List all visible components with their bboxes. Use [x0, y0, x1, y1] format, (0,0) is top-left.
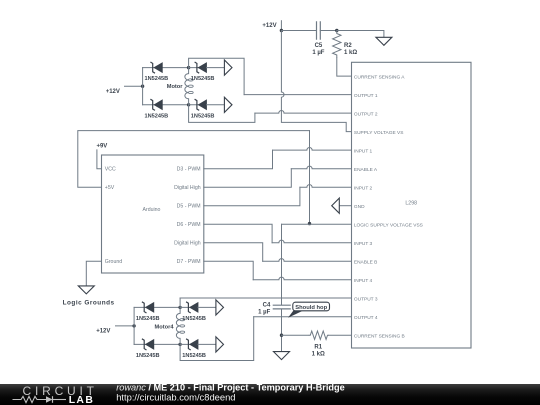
wire to OUTPUT 4 — [254, 316, 352, 318]
wire bridge1 left vertical — [142, 68, 144, 105]
inductor Motor4 — [176, 307, 180, 344]
wire to ENABLE B (hop over C4 net) — [263, 259, 352, 262]
inductor Motor — [185, 68, 189, 105]
svg-text:http://circuitlab.com/c8deend: http://circuitlab.com/c8deend — [116, 391, 235, 402]
wire to INPUT 2 (hop over +5V drop) — [300, 185, 352, 188]
svg-text:OUTPUT 1: OUTPUT 1 — [354, 93, 378, 99]
wire to INPUT 3 (hop over C4 net) — [272, 240, 351, 243]
svg-text:Ground: Ground — [105, 259, 122, 265]
svg-text:1N5245B: 1N5245B — [145, 76, 169, 82]
wire C4 net upper vertical — [281, 224, 283, 305]
wire +12V stub — [280, 21, 282, 31]
wire Ground pin to logic ground — [86, 261, 101, 286]
svg-text:1 kΩ: 1 kΩ — [344, 50, 357, 56]
junction bridge1 left — [141, 85, 144, 88]
svg-text:D5 - PWM: D5 - PWM — [177, 204, 201, 210]
wire bridge1 top row — [143, 67, 189, 69]
svg-text:1N5245B: 1N5245B — [191, 76, 215, 82]
zener diode D4 1N5245B — [195, 99, 207, 110]
zener diode D3 1N5245B — [195, 62, 207, 73]
svg-text:1 kΩ: 1 kΩ — [312, 352, 325, 358]
svg-text:LAB: LAB — [69, 395, 95, 405]
wire +5V rail — [78, 131, 310, 188]
zener diode D5 1N5245B — [142, 302, 154, 313]
svg-text:1N5245B: 1N5245B — [145, 113, 169, 119]
wire bridge2 bottom row — [134, 343, 180, 345]
wire to ENABLE A (hop over +5V drop) — [291, 166, 351, 169]
svg-text:+9V: +9V — [96, 144, 107, 150]
wire bridge1 top border — [189, 58, 245, 94]
zener diode D8 1N5245B — [186, 339, 198, 350]
wire motor4 to D7z — [180, 306, 196, 308]
ground (bridge2 bottom right) — [216, 337, 224, 352]
wire D4z to ground flag — [207, 104, 225, 106]
logo CIRCUIT LAB — [13, 384, 98, 405]
wire +12V to bridge 2 — [116, 325, 135, 327]
zener diode D2 1N5245B — [150, 99, 162, 110]
svg-text:Arduino: Arduino — [143, 207, 161, 213]
wire R1 to CURRENT SENSING B — [329, 334, 352, 336]
wire D5-PWM riser — [204, 187, 300, 206]
junction motor4 bottom — [178, 343, 181, 346]
wire bridge2 top border riser — [179, 298, 181, 307]
wire bridge2 bottom border — [180, 317, 254, 361]
IC U1 L298 block — [352, 62, 472, 348]
svg-text:CURRENT SENSING A: CURRENT SENSING A — [354, 74, 405, 80]
svg-text:LOGIC SUPPLY VOLTAGE VSS: LOGIC SUPPLY VOLTAGE VSS — [354, 222, 423, 228]
wire node to R1 — [282, 334, 309, 336]
zener diode D6 1N5245B — [142, 339, 154, 350]
junction +12V/C5 — [280, 29, 283, 32]
svg-text:C5: C5 — [315, 43, 323, 49]
svg-text:Motor4: Motor4 — [155, 324, 175, 330]
junction VSS — [308, 222, 311, 225]
svg-text:D3 - PWM: D3 - PWM — [177, 167, 201, 173]
capacitor C5 — [317, 21, 321, 40]
IC U2 Arduino block — [102, 155, 204, 273]
svg-text:INPUT 3: INPUT 3 — [354, 241, 373, 247]
wire motor4 to D8z — [180, 343, 196, 345]
wire +12V to bridge 1 — [125, 85, 143, 87]
svg-text:1N5245B: 1N5245B — [136, 316, 160, 322]
wire motor to D3z — [189, 67, 205, 69]
ground (logic) — [78, 286, 94, 294]
wire +12V to SUPPLY VOLTAGE VS (hop over OUTPUT 1 wire) — [281, 31, 351, 132]
capacitor C4 — [273, 305, 291, 309]
wire D8z to ground flag — [198, 343, 216, 345]
svg-text:+12V: +12V — [262, 23, 276, 29]
svg-text:INPUT 4: INPUT 4 — [354, 278, 373, 284]
wire D3z to ground flag — [207, 67, 225, 69]
wire to OUTPUT 2 (hop over +12V) — [255, 110, 352, 113]
svg-text:VCC: VCC — [105, 167, 116, 173]
wire D6-PWM dropper — [204, 224, 272, 243]
svg-text:1 µF: 1 µF — [312, 50, 324, 56]
svg-text:D6 - PWM: D6 - PWM — [177, 222, 201, 228]
wire bridge1 bottom border — [189, 105, 255, 123]
callout Should hop — [288, 302, 330, 318]
svg-text:SUPPLY VOLTAGE VS: SUPPLY VOLTAGE VS — [354, 130, 404, 136]
wire to OUTPUT 1 — [244, 94, 351, 96]
svg-text:OUTPUT 2: OUTPUT 2 — [354, 111, 378, 117]
ground (top right) — [376, 37, 392, 45]
svg-text:Digital High: Digital High — [174, 241, 201, 247]
wire D7-PWM dropper — [204, 261, 253, 280]
wire D7z to ground flag — [198, 306, 216, 308]
resistor R1 — [309, 331, 329, 339]
svg-text:ENABLE B: ENABLE B — [354, 259, 377, 265]
svg-text:ENABLE A: ENABLE A — [354, 167, 378, 173]
svg-text:R1: R1 — [314, 345, 322, 351]
wire +12V to C5 — [281, 30, 316, 32]
wire to INPUT 1 (hop over +5V drop) — [273, 147, 352, 150]
wire to INPUT 4 (hop over C4 net) — [253, 277, 351, 280]
junction bridge2 left — [132, 324, 135, 327]
zener diode D7 1N5245B — [186, 302, 198, 313]
wire GND pin — [339, 205, 351, 207]
wire DigitalHigh riser — [204, 169, 291, 188]
svg-text:OUTPUT 4: OUTPUT 4 — [354, 315, 378, 321]
junction R1 left — [280, 334, 283, 337]
ground (bridge1 top right) — [224, 60, 232, 75]
resistor R2 — [333, 31, 341, 59]
svg-text:Digital High: Digital High — [174, 185, 201, 191]
wire node to ground (top right) — [337, 31, 384, 38]
svg-text:GND: GND — [354, 204, 365, 210]
svg-text:OUTPUT 3: OUTPUT 3 — [354, 296, 378, 302]
ground (L298 GND pin) — [332, 198, 340, 213]
svg-text:1N5245B: 1N5245B — [182, 316, 206, 322]
wire D3-PWM riser — [204, 150, 273, 169]
wire DigitalHigh2 dropper — [204, 243, 263, 262]
wire +9V to VCC — [97, 150, 102, 169]
wire VSS horizontal — [282, 223, 352, 225]
zener diode D1 1N5245B — [150, 62, 162, 73]
svg-text:+12V: +12V — [106, 89, 120, 95]
junction motor top — [187, 66, 190, 69]
svg-text:+12V: +12V — [96, 329, 110, 335]
svg-text:INPUT 2: INPUT 2 — [354, 185, 373, 191]
wire bridge2 top row — [134, 306, 180, 308]
svg-text:1 µF: 1 µF — [258, 310, 270, 316]
svg-text:CURRENT SENSING B: CURRENT SENSING B — [354, 333, 405, 339]
wire C5 to R2 node — [320, 30, 337, 32]
svg-text:INPUT 1: INPUT 1 — [354, 148, 373, 154]
junction R2 top — [335, 29, 338, 32]
svg-text:1N5245B: 1N5245B — [182, 353, 206, 359]
svg-text:Logic Grounds: Logic Grounds — [63, 299, 115, 306]
svg-text:L298: L298 — [405, 200, 417, 206]
footer bar — [0, 384, 540, 405]
svg-text:Motor: Motor — [167, 84, 184, 90]
wire to OUTPUT 3 — [180, 297, 351, 299]
wire C4 net lower vertical — [281, 309, 283, 352]
wire +5V rail drop to VSS — [309, 131, 311, 224]
svg-text:1N5245B: 1N5245B — [136, 353, 160, 359]
svg-text:D7 - PWM: D7 - PWM — [177, 259, 201, 265]
svg-text:1N5245B: 1N5245B — [191, 113, 215, 119]
ground (bridge1 bottom right) — [224, 97, 232, 112]
svg-text:+5V: +5V — [105, 185, 115, 191]
svg-text:R2: R2 — [344, 43, 352, 49]
ground (bridge2 top right) — [216, 300, 224, 315]
ground (bottom middle) — [274, 352, 290, 360]
wire bridge1 bottom row — [143, 104, 189, 106]
wire R2 to CURRENT SENSING A — [337, 58, 352, 76]
svg-text:Should hop: Should hop — [295, 305, 327, 311]
wire motor to D4z — [189, 104, 205, 106]
svg-text:C4: C4 — [263, 303, 271, 309]
wire bridge2 left vertical — [133, 307, 135, 344]
junction motor bottom — [187, 103, 190, 106]
junction motor4 top — [178, 306, 181, 309]
